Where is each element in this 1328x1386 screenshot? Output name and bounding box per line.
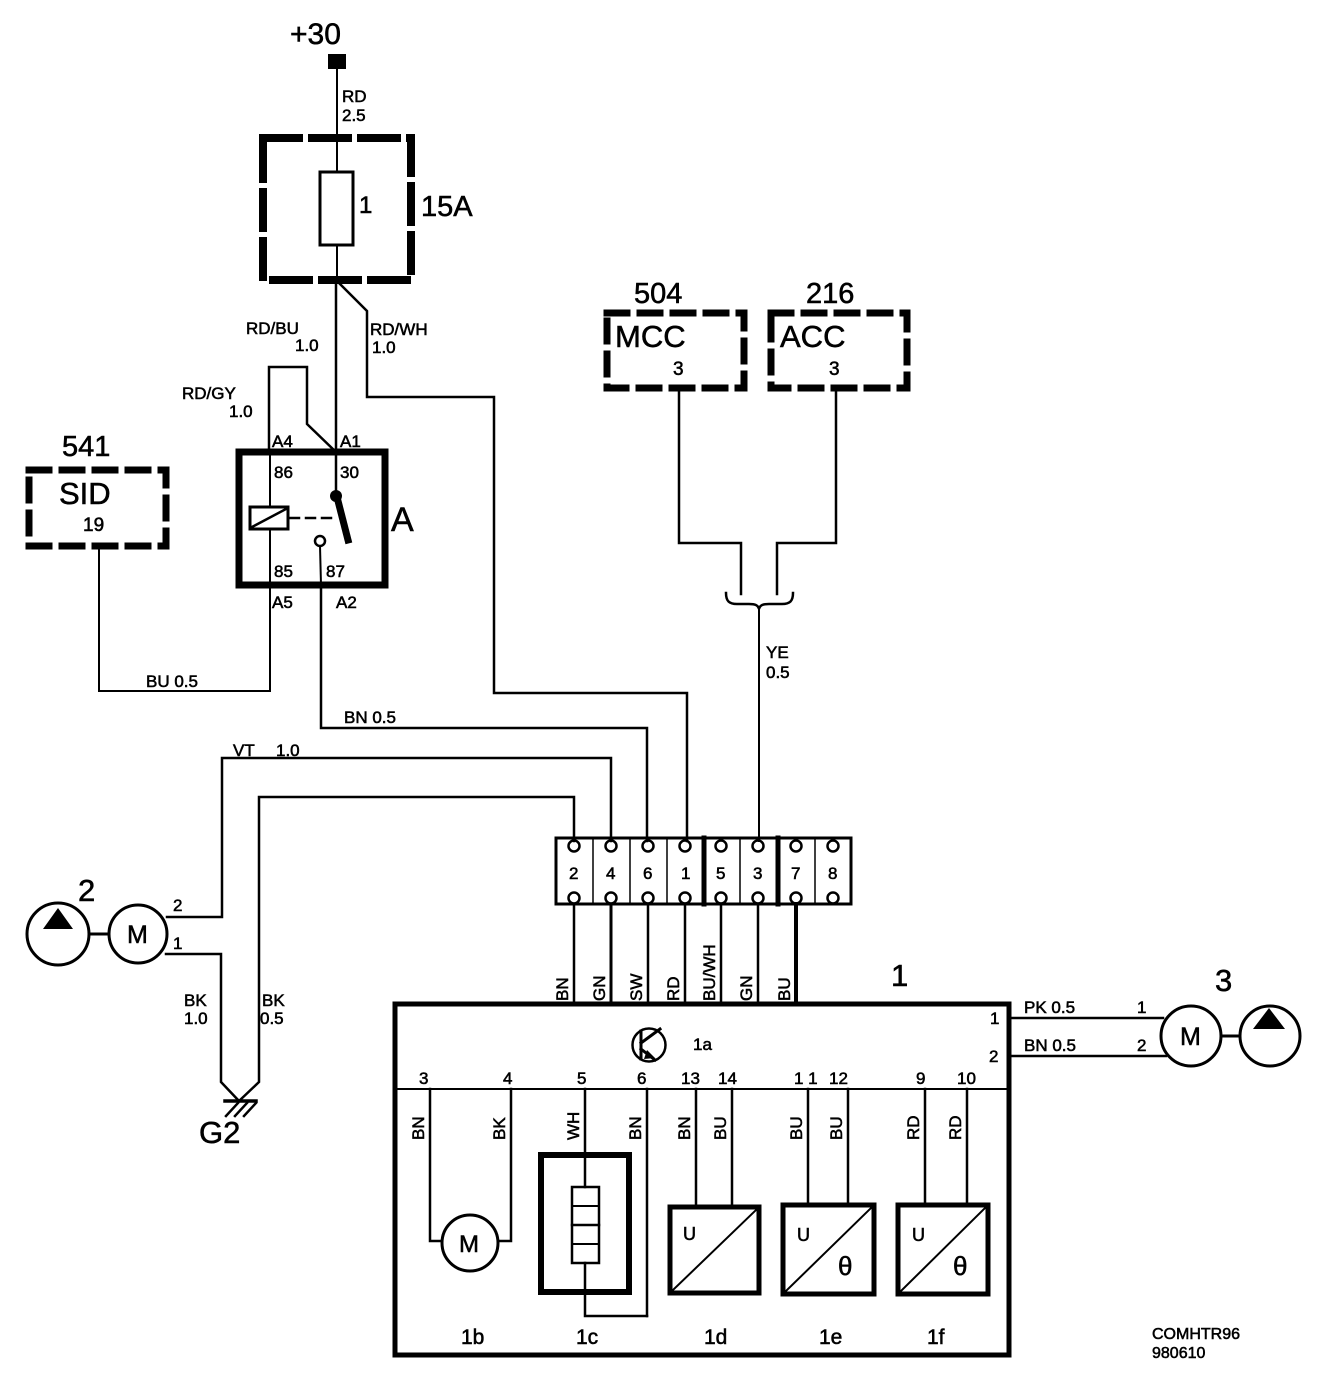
svg-text:RD: RD: [342, 87, 367, 106]
svg-text:A2: A2: [336, 593, 357, 612]
svg-text:RD/WH: RD/WH: [370, 320, 428, 339]
svg-text:14: 14: [718, 1069, 737, 1088]
svg-text:2: 2: [569, 864, 578, 883]
svg-text:1c: 1c: [576, 1326, 598, 1349]
wire BN connector pin 2 to unit: [553, 904, 574, 1004]
wire RD/WH 1.0 fuse to connector pin 1: [337, 281, 687, 841]
connector strip pins 2 4 6 1 5 3 7 8: [556, 838, 851, 904]
svg-text:BN: BN: [409, 1116, 428, 1140]
svg-text:COMHTR96: COMHTR96: [1152, 1326, 1240, 1343]
wire MCC pin 3: [679, 388, 741, 594]
svg-text:3: 3: [673, 359, 684, 380]
svg-text:BN: BN: [553, 977, 572, 1001]
wire BU/WH connector pin 5 to unit: [700, 904, 721, 1004]
wire RD 2.5 battery to fuse: [337, 69, 367, 139]
svg-text:M: M: [459, 1231, 479, 1258]
svg-text:541: 541: [62, 431, 110, 463]
svg-text:1.0: 1.0: [372, 338, 396, 357]
svg-text:A: A: [391, 501, 414, 539]
wire BN 0.5 relay 87 to connector pin 6: [321, 585, 647, 841]
wire RD fuse to relay pin 30: [335, 280, 338, 452]
svg-text:RD/BU: RD/BU: [246, 319, 299, 338]
svg-text:WH: WH: [564, 1112, 583, 1140]
svg-text:RD: RD: [904, 1115, 923, 1140]
wire GN connector pin 4 to unit: [590, 904, 611, 1004]
unit 1 internal pin numbers: [419, 1009, 999, 1088]
svg-text:YE: YE: [766, 643, 789, 662]
svg-text:6: 6: [637, 1069, 646, 1088]
svg-text:2: 2: [989, 1047, 998, 1066]
svg-text:BK: BK: [184, 991, 207, 1010]
svg-text:5: 5: [577, 1069, 586, 1088]
svg-text:RD: RD: [664, 976, 683, 1001]
brace junction: [726, 593, 793, 609]
svg-text:θ: θ: [838, 1251, 852, 1281]
svg-text:A4: A4: [272, 432, 293, 451]
svg-text:BU 0.5: BU 0.5: [146, 672, 198, 691]
wire BU connector pin 7 to unit: [775, 904, 796, 1004]
wire BK 0.5 connector pin 2 to ground: [239, 797, 574, 1101]
svg-text:3: 3: [753, 864, 762, 883]
connector 216 ACC: [771, 278, 907, 388]
svg-text:1.0: 1.0: [184, 1009, 208, 1028]
svg-text:1d: 1d: [704, 1326, 727, 1349]
svg-text:216: 216: [806, 278, 854, 310]
svg-text:4: 4: [503, 1069, 512, 1088]
svg-text:BN 0.5: BN 0.5: [1024, 1036, 1076, 1055]
svg-text:980610: 980610: [1152, 1345, 1205, 1362]
svg-text:θ: θ: [953, 1251, 967, 1281]
svg-text:ACC: ACC: [780, 319, 845, 354]
svg-text:1b: 1b: [461, 1326, 484, 1349]
wire BN 0.5 unit pin 2 to motor 3: [1011, 1036, 1166, 1056]
svg-text:87: 87: [326, 562, 345, 581]
svg-text:3: 3: [419, 1069, 428, 1088]
fuse 1 (15A): [263, 138, 473, 280]
svg-text:1a: 1a: [693, 1035, 712, 1054]
svg-text:BU: BU: [775, 977, 794, 1001]
wire VT 1.0 connector pin 4 to motor 2: [167, 741, 611, 917]
svg-text:M: M: [1180, 1023, 1201, 1051]
sensor 1e: [783, 1089, 874, 1349]
svg-text:8: 8: [828, 864, 837, 883]
svg-text:30: 30: [340, 463, 359, 482]
svg-text:0.5: 0.5: [766, 663, 790, 682]
svg-text:85: 85: [274, 562, 293, 581]
svg-text:9: 9: [916, 1069, 925, 1088]
svg-text:7: 7: [791, 864, 800, 883]
wire PK 0.5 unit pin 1 to motor 3: [1011, 998, 1163, 1018]
svg-text:3: 3: [829, 359, 840, 380]
svg-text:2: 2: [1137, 1036, 1146, 1055]
wire GN connector pin 3 to unit: [737, 904, 758, 1004]
svg-text:13: 13: [681, 1069, 700, 1088]
caption COMHTR96 980610: [1152, 1326, 1240, 1362]
svg-text:VT: VT: [233, 741, 255, 760]
connector 504 MCC: [607, 278, 744, 388]
svg-text:10: 10: [957, 1069, 976, 1088]
relay coil: [250, 452, 288, 585]
svg-text:1: 1: [173, 934, 182, 953]
svg-text:1.0: 1.0: [295, 336, 319, 355]
wire ACC pin 3: [777, 388, 836, 594]
svg-text:MCC: MCC: [615, 319, 686, 354]
resistor 1c: [541, 1089, 647, 1349]
svg-text:BU: BU: [827, 1116, 846, 1140]
svg-text:BN 0.5: BN 0.5: [344, 708, 396, 727]
sensor 1d: [670, 1089, 759, 1349]
svg-text:BK: BK: [262, 991, 285, 1010]
svg-text:A5: A5: [272, 593, 293, 612]
svg-text:G2: G2: [199, 1115, 240, 1150]
svg-text:1 1: 1 1: [794, 1069, 818, 1088]
svg-text:U: U: [797, 1225, 810, 1245]
svg-text:1.0: 1.0: [276, 741, 300, 760]
svg-text:BU/WH: BU/WH: [700, 944, 719, 1001]
wire RD/BU 1.0 jumper to relay pin 86: [246, 319, 336, 452]
svg-text:U: U: [912, 1225, 925, 1245]
svg-text:BN: BN: [626, 1116, 645, 1140]
pump 2 assembly: [27, 873, 167, 965]
svg-text:5: 5: [716, 864, 725, 883]
svg-text:RD: RD: [946, 1115, 965, 1140]
label RD/GY 1.0: [182, 384, 253, 421]
svg-text:0.5: 0.5: [260, 1009, 284, 1028]
wire BU 0.5 SID 19 to relay 85: [99, 546, 270, 691]
ground G2: [199, 1101, 256, 1150]
svg-text:2: 2: [78, 873, 95, 908]
svg-text:GN: GN: [737, 976, 756, 1002]
svg-text:1: 1: [681, 864, 690, 883]
svg-text:RD/GY: RD/GY: [182, 384, 236, 403]
svg-text:1e: 1e: [819, 1326, 842, 1349]
motor 3 assembly: [1161, 963, 1300, 1066]
svg-text:SID: SID: [59, 476, 111, 511]
svg-text:BN: BN: [675, 1116, 694, 1140]
svg-text:M: M: [127, 921, 148, 949]
relay switch contact: [290, 452, 348, 585]
svg-text:+30: +30: [290, 18, 341, 51]
svg-text:1: 1: [1137, 998, 1146, 1017]
svg-text:1: 1: [359, 192, 372, 219]
svg-text:2: 2: [173, 896, 182, 915]
svg-text:3: 3: [1215, 963, 1232, 998]
unit 1 main box: [395, 958, 1009, 1355]
wire YE 0.5 to connector pin 3: [759, 609, 790, 841]
svg-text:BK: BK: [490, 1117, 509, 1140]
svg-text:504: 504: [634, 278, 682, 310]
relay A: [239, 432, 414, 612]
svg-text:4: 4: [606, 864, 615, 883]
svg-text:15A: 15A: [421, 191, 473, 223]
svg-text:GN: GN: [590, 976, 609, 1002]
svg-text:1: 1: [990, 1009, 999, 1028]
svg-text:1.0: 1.0: [229, 402, 253, 421]
svg-text:86: 86: [274, 463, 293, 482]
wire BK 1.0 motor 2 pin 1 to ground: [166, 934, 239, 1101]
transistor 1a: [633, 1029, 713, 1062]
svg-text:U: U: [683, 1224, 696, 1244]
motor 1b: [409, 1089, 511, 1349]
svg-text:6: 6: [643, 864, 652, 883]
svg-text:1f: 1f: [927, 1326, 945, 1349]
svg-text:SW: SW: [627, 974, 646, 1001]
svg-text:PK 0.5: PK 0.5: [1024, 998, 1075, 1017]
svg-text:1: 1: [891, 958, 908, 993]
wire RD connector pin 1 to unit: [664, 904, 685, 1004]
svg-text:BU: BU: [787, 1116, 806, 1140]
svg-text:19: 19: [83, 515, 104, 536]
wire SW connector pin 6 to unit: [627, 904, 648, 1004]
svg-text:BU: BU: [711, 1116, 730, 1140]
svg-text:2.5: 2.5: [342, 106, 366, 125]
sensor 1f: [898, 1089, 988, 1349]
svg-text:12: 12: [829, 1069, 848, 1088]
svg-text:A1: A1: [340, 432, 361, 451]
connector 541 SID: [29, 431, 166, 546]
node +30 supply: [290, 18, 346, 69]
